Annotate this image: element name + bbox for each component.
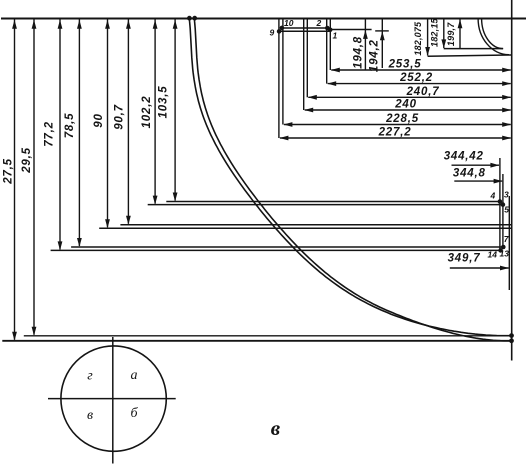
label point 10 [284, 18, 294, 28]
wire waterline 78,5 upper [71, 246, 503, 248]
svg-text:344,8: 344,8 [453, 168, 486, 180]
dimension 227,2 [279, 127, 511, 141]
wire extension x327 [326, 19, 328, 84]
svg-text:4: 4 [490, 191, 496, 201]
label point 5 [504, 205, 509, 215]
label figure v [271, 416, 281, 440]
svg-text:102,2: 102,2 [141, 96, 153, 129]
wire extension x304 [303, 19, 305, 111]
wire chord 10-2 [282, 27, 327, 29]
frame curve outer [189, 18, 511, 336]
wire right vertical border [511, 0, 513, 361]
dimension 90 vertical [93, 20, 110, 229]
svg-text:3: 3 [504, 190, 509, 200]
node point 9 [277, 29, 282, 34]
dimension 252,2 [327, 72, 511, 86]
svg-text:10: 10 [284, 18, 294, 28]
dimension 182,15 [429, 17, 446, 48]
svg-text:253,5: 253,5 [388, 59, 422, 71]
node curve top outer [187, 16, 192, 21]
wire chord right of 1 [330, 29, 371, 31]
svg-text:9: 9 [270, 28, 275, 38]
wire extension x503 [502, 174, 504, 247]
wire extension x500 [499, 158, 501, 250]
svg-text:1: 1 [333, 31, 338, 41]
svg-text:27,5: 27,5 [3, 158, 15, 185]
wire waterline 90 lower [99, 227, 512, 229]
svg-text:240,7: 240,7 [406, 86, 440, 98]
dimension 240,7 [308, 86, 511, 100]
frame curve inner [194, 18, 511, 341]
wire baseline top [1, 18, 526, 20]
wire waterline 103,5 upper [166, 201, 500, 203]
svg-text:199,7: 199,7 [446, 22, 456, 46]
svg-text:13: 13 [500, 249, 510, 259]
svg-text:252,2: 252,2 [399, 72, 433, 84]
svg-text:78,5: 78,5 [64, 113, 76, 139]
dimension 253,5 [331, 59, 511, 73]
svg-text:344,42: 344,42 [444, 150, 484, 162]
wire fillet inner tangent [444, 48, 503, 50]
svg-text:14: 14 [488, 250, 498, 260]
wire waterline 102,2 lower [148, 204, 503, 206]
wire extension x509 [508, 196, 510, 290]
quadrant circle [61, 346, 166, 451]
node point 3 [501, 202, 506, 207]
svg-text:в: в [271, 416, 281, 440]
svg-text:а: а [131, 368, 138, 383]
corner fillet inner arc [482, 19, 504, 49]
wire extension x283 [282, 19, 284, 125]
wire bottom line upper [24, 335, 512, 337]
dimension 228,5 [283, 113, 511, 127]
dimension 103,5 vertical [158, 20, 178, 202]
node point 13 [501, 245, 506, 250]
svg-text:182,075: 182,075 [413, 21, 423, 56]
svg-text:29,5: 29,5 [21, 147, 33, 174]
dimension 27,5 vertical [3, 20, 17, 341]
dimension 29,5 vertical [21, 20, 36, 336]
dimension 344,8 [453, 168, 503, 184]
wire waterline 90,7 upper [120, 224, 511, 226]
svg-text:227,2: 227,2 [378, 127, 412, 139]
dimension 182,075 [413, 19, 430, 57]
dimension 199,7 [446, 19, 463, 48]
label quadrant v [87, 408, 93, 423]
wire extension x279 [278, 19, 280, 139]
label point 2 [316, 18, 322, 28]
dimension 102,2 vertical [141, 20, 157, 205]
wire waterline 77,2 lower [51, 249, 501, 251]
label point 9 [270, 28, 275, 38]
label point 4 [490, 191, 496, 201]
dimension 194,2 [369, 19, 385, 73]
dimension 240 [304, 99, 511, 113]
label quadrant g [87, 369, 93, 384]
svg-text:в: в [87, 408, 93, 423]
label point 1 [333, 31, 338, 41]
node point 1 [328, 28, 333, 33]
label point 14b [488, 250, 498, 260]
svg-text:77,2: 77,2 [44, 121, 56, 147]
node point 14 [498, 248, 503, 253]
node curve top inner [192, 16, 197, 21]
corner fillet outer arc [478, 19, 509, 55]
label point 3 [504, 190, 509, 200]
node point 2 [325, 26, 330, 31]
node point 4 [498, 199, 503, 204]
dimension 344,42 [444, 150, 500, 167]
dimension 78,5 vertical [64, 20, 82, 248]
wire fillet lower tangent [428, 55, 512, 56]
svg-text:б: б [130, 406, 138, 421]
dimension 349,7 [448, 253, 509, 271]
dimension 90,7 vertical [114, 20, 131, 225]
dimension 194,8 [353, 19, 368, 71]
svg-text:103,5: 103,5 [158, 86, 170, 119]
node point 10 [280, 26, 285, 31]
svg-text:194,8: 194,8 [353, 36, 365, 69]
svg-text:90,7: 90,7 [114, 104, 126, 130]
dimension 77,2 vertical [44, 20, 63, 251]
wire circle vertical axis [112, 337, 114, 464]
label quadrant a [131, 368, 138, 383]
label point 13b [500, 249, 510, 259]
svg-text:90: 90 [93, 113, 105, 127]
node curve end upper [509, 333, 514, 338]
svg-text:194,2: 194,2 [369, 39, 381, 72]
svg-text:349,7: 349,7 [448, 253, 481, 265]
node curve end lower [509, 338, 514, 343]
wire chord 9-1 [279, 30, 330, 32]
svg-text:240: 240 [394, 99, 417, 111]
label point 7 [504, 234, 510, 244]
svg-text:2: 2 [316, 18, 322, 28]
wire tick for 194,2 [375, 30, 389, 32]
svg-text:182,15: 182,15 [429, 17, 439, 47]
svg-text:5: 5 [504, 205, 509, 215]
wire circle horizontal axis [48, 398, 176, 400]
svg-text:г: г [87, 369, 93, 384]
wire extension x330 [329, 19, 331, 71]
svg-text:228,5: 228,5 [385, 113, 419, 125]
wire bottom line lower [2, 340, 511, 342]
label quadrant b [130, 406, 138, 421]
wire extension x307 [306, 19, 308, 98]
